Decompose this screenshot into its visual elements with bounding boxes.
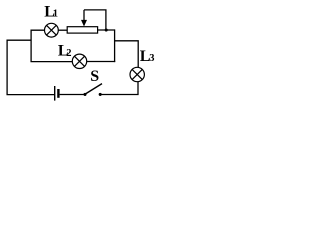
wire: battery to switch	[60, 94, 84, 96]
switch S lever	[85, 84, 102, 94]
wire: branch to L3 top	[115, 41, 139, 68]
wire: slider top run and drop to junction	[84, 10, 106, 30]
rheostat slider arrow	[81, 10, 87, 27]
lamp L3	[130, 67, 144, 81]
label L2	[58, 43, 72, 60]
rheostat R body	[67, 27, 97, 33]
wire: rheostat right lead to right branch corner	[98, 29, 115, 31]
label L1	[44, 4, 58, 21]
wire: L3 bottom lead and bottom-right run to switch	[101, 82, 138, 95]
label S	[90, 68, 99, 85]
switch S contact left	[83, 93, 86, 96]
lamp L1	[45, 23, 59, 37]
lamp L2	[72, 54, 86, 68]
svg-text:3: 3	[149, 53, 154, 64]
svg-text:1: 1	[53, 9, 58, 20]
wire: right branch vertical down to L2 level	[114, 29, 116, 62]
label L3	[140, 48, 155, 65]
junction dot	[105, 28, 108, 31]
svg-text:S: S	[90, 68, 99, 85]
battery cell	[55, 86, 59, 101]
wire: L1 left lead, left branch vertical, L2 left lead	[31, 30, 72, 61]
wire: left node horizontal, left main vertical, bottom-left run to battery	[7, 40, 54, 94]
wire: L1 right lead to rheostat	[58, 29, 67, 31]
wire: L2 right lead	[87, 61, 116, 63]
switch S contact right	[99, 93, 102, 96]
svg-text:2: 2	[66, 48, 71, 59]
